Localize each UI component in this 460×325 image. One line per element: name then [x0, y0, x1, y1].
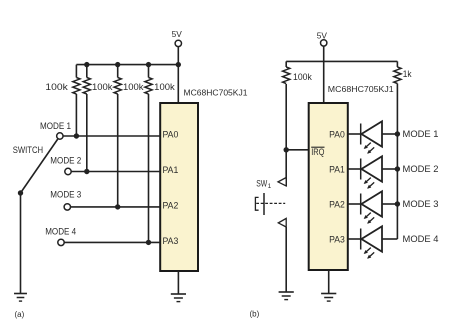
svg-text:MODE 3: MODE 3 — [403, 199, 439, 209]
svg-text:SWITCH: SWITCH — [13, 145, 43, 155]
svg-text:5V: 5V — [317, 30, 328, 40]
svg-text:MODE 2: MODE 2 — [50, 155, 81, 165]
svg-text:PA0: PA0 — [329, 130, 345, 140]
svg-text:100k: 100k — [45, 82, 68, 92]
svg-text:MODE 4: MODE 4 — [403, 234, 439, 244]
svg-text:PA3: PA3 — [163, 236, 179, 246]
svg-text:PA1: PA1 — [163, 165, 179, 175]
svg-text:(a): (a) — [15, 310, 25, 319]
svg-text:5V: 5V — [172, 29, 183, 39]
svg-text:MODE 3: MODE 3 — [50, 190, 81, 200]
svg-text:MC68HC705KJ1: MC68HC705KJ1 — [328, 84, 394, 94]
svg-text:(b): (b) — [250, 310, 260, 319]
svg-text:1: 1 — [268, 183, 272, 190]
svg-text:SW: SW — [256, 179, 267, 189]
svg-text:PA2: PA2 — [329, 200, 345, 210]
svg-text:1k: 1k — [403, 69, 412, 79]
svg-text:MODE 1: MODE 1 — [40, 121, 71, 131]
svg-text:PA1: PA1 — [329, 165, 345, 175]
svg-text:100k: 100k — [293, 72, 312, 82]
svg-text:IRQ: IRQ — [311, 147, 324, 157]
svg-text:100k: 100k — [92, 82, 113, 92]
svg-text:100k: 100k — [154, 82, 175, 92]
svg-text:MC68HC705KJ1: MC68HC705KJ1 — [184, 87, 248, 97]
svg-text:MODE 1: MODE 1 — [403, 129, 439, 139]
svg-text:MODE 4: MODE 4 — [45, 227, 76, 237]
svg-text:PA2: PA2 — [163, 201, 179, 211]
svg-text:MODE 2: MODE 2 — [403, 164, 439, 174]
svg-text:100k: 100k — [123, 82, 144, 92]
svg-text:PA0: PA0 — [163, 130, 179, 140]
svg-text:PA3: PA3 — [329, 235, 345, 245]
